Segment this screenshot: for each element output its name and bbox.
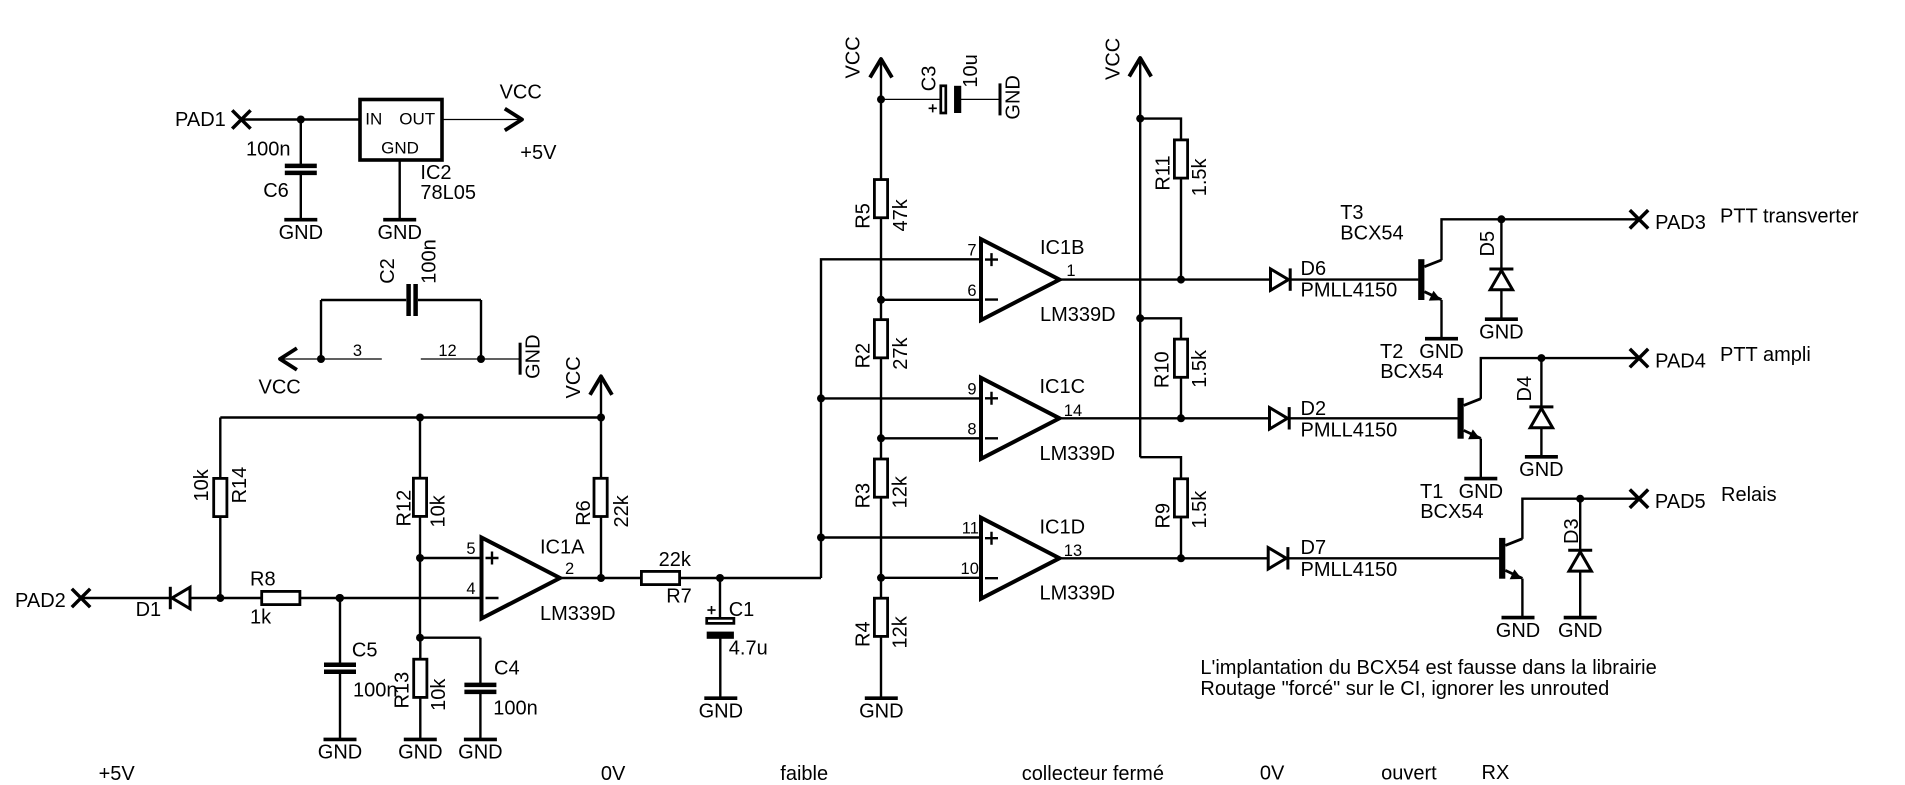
svg-text:R6: R6 [573,500,595,526]
svg-text:PMLL4150: PMLL4150 [1301,559,1398,581]
svg-text:GND: GND [381,138,419,157]
svg-text:R12: R12 [393,490,415,527]
svg-text:D2: D2 [1301,398,1327,420]
svg-text:Routage "forcé" sur le CI, ign: Routage "forcé" sur le CI, ignorer les u… [1200,678,1609,700]
svg-text:BCX54: BCX54 [1420,501,1483,523]
svg-text:collecteur fermé: collecteur fermé [1022,763,1164,785]
svg-text:R2: R2 [853,343,875,369]
svg-text:R9: R9 [1153,503,1175,529]
svg-text:100n: 100n [246,139,291,161]
svg-text:LM339D: LM339D [1040,304,1116,326]
svg-text:PTT ampli: PTT ampli [1720,344,1811,366]
svg-text:C2: C2 [377,258,399,284]
svg-text:PMLL4150: PMLL4150 [1301,419,1398,441]
svg-text:47k: 47k [890,198,912,231]
svg-text:6: 6 [967,282,976,300]
svg-text:LM339D: LM339D [1040,443,1116,465]
svg-text:Relais: Relais [1721,484,1777,506]
svg-text:IC1C: IC1C [1040,376,1086,398]
svg-text:8: 8 [967,420,976,438]
svg-text:D6: D6 [1301,258,1327,280]
svg-text:D4: D4 [1514,376,1536,402]
svg-text:IC1A: IC1A [540,537,585,559]
svg-text:10k: 10k [428,678,450,711]
svg-text:R7: R7 [666,586,692,608]
svg-text:12: 12 [438,342,456,360]
svg-text:R5: R5 [852,203,874,229]
svg-text:4: 4 [466,580,475,598]
svg-text:12k: 12k [890,475,912,508]
svg-text:2: 2 [565,560,574,578]
svg-text:VCC: VCC [1103,38,1125,80]
svg-text:R8: R8 [250,569,276,591]
svg-text:1.5k: 1.5k [1189,349,1211,388]
svg-text:R11: R11 [1153,155,1175,190]
svg-text:3: 3 [353,342,362,360]
svg-text:11: 11 [962,520,979,538]
svg-text:22k: 22k [659,549,692,571]
svg-text:10u: 10u [960,54,982,87]
svg-text:D1: D1 [136,599,162,621]
svg-text:VCC: VCC [259,376,301,398]
svg-text:LM339D: LM339D [1040,583,1116,605]
svg-text:PAD2: PAD2 [15,590,66,612]
svg-text:10: 10 [961,560,979,578]
svg-text:VCC: VCC [500,81,542,103]
svg-text:R14: R14 [229,467,251,504]
svg-text:+5V: +5V [520,142,557,164]
svg-text:ouvert: ouvert [1381,763,1437,785]
svg-text:VCC: VCC [843,36,865,78]
svg-text:T2: T2 [1380,341,1403,363]
svg-text:IC2: IC2 [420,162,451,184]
svg-text:VCC: VCC [563,356,585,398]
svg-text:PMLL4150: PMLL4150 [1301,280,1398,302]
svg-text:C5: C5 [352,640,378,662]
svg-text:100n: 100n [493,697,538,719]
svg-text:R10: R10 [1152,351,1174,388]
svg-text:IC1D: IC1D [1040,517,1086,539]
svg-text:1.5k: 1.5k [1189,490,1211,529]
svg-text:+5V: +5V [99,763,136,785]
svg-text:100n: 100n [419,239,441,284]
svg-text:10k: 10k [191,468,213,501]
svg-text:1k: 1k [250,607,272,629]
svg-text:0V: 0V [601,763,626,785]
svg-text:R13: R13 [392,672,414,709]
svg-text:D7: D7 [1301,537,1327,559]
svg-text:1.5k: 1.5k [1189,157,1211,196]
svg-text:27k: 27k [890,337,912,370]
svg-text:12k: 12k [890,615,912,648]
svg-text:OUT: OUT [399,110,435,129]
svg-text:10k: 10k [428,494,450,527]
svg-text:PAD4: PAD4 [1655,351,1706,373]
svg-text:LM339D: LM339D [540,603,616,625]
svg-text:4.7u: 4.7u [729,638,768,660]
svg-text:C6: C6 [263,180,289,202]
svg-text:IN: IN [365,110,382,129]
svg-text:BCX54: BCX54 [1380,361,1443,383]
svg-text:IC1B: IC1B [1040,237,1084,259]
svg-text:22k: 22k [611,494,633,527]
svg-text:R3: R3 [853,483,875,509]
svg-text:C3: C3 [919,66,941,92]
svg-text:PTT transverter: PTT transverter [1720,206,1859,228]
svg-text:D5: D5 [1477,231,1499,257]
svg-text:faible: faible [780,763,828,785]
svg-text:PAD5: PAD5 [1655,491,1706,513]
svg-text:PAD1: PAD1 [175,109,226,131]
svg-text:9: 9 [967,380,976,398]
svg-text:C4: C4 [494,658,520,680]
svg-text:1: 1 [1066,262,1075,280]
svg-text:0V: 0V [1260,763,1285,785]
svg-text:D3: D3 [1561,518,1583,544]
svg-text:BCX54: BCX54 [1340,222,1403,244]
svg-text:78L05: 78L05 [420,182,476,204]
svg-text:7: 7 [967,241,976,259]
svg-text:L'implantation du BCX54 est fa: L'implantation du BCX54 est fausse dans … [1200,657,1656,679]
svg-text:C1: C1 [729,599,755,621]
svg-text:PAD3: PAD3 [1655,212,1706,234]
svg-text:T3: T3 [1340,202,1363,224]
svg-text:R4: R4 [852,621,874,647]
svg-text:5: 5 [466,540,475,558]
svg-text:RX: RX [1482,762,1510,784]
svg-text:T1: T1 [1420,481,1443,503]
